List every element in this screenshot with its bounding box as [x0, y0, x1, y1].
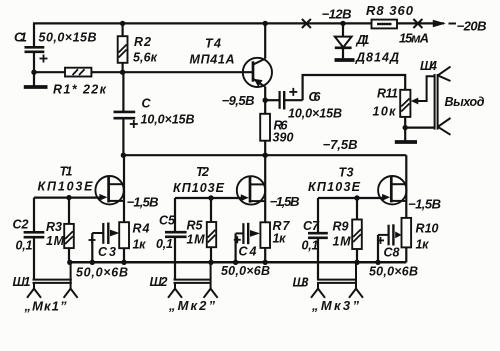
arrow -20V	[433, 20, 456, 28]
svg-text:R11: R11	[377, 87, 398, 101]
connector Sh3	[311, 262, 363, 298]
svg-text:Д1: Д1	[356, 33, 370, 47]
label R10	[416, 222, 439, 252]
ground at C1	[24, 85, 48, 89]
svg-text:С3: С3	[98, 245, 116, 259]
capacitor C1	[25, 23, 48, 85]
svg-text:R4: R4	[133, 222, 150, 236]
label -20V	[457, 19, 487, 34]
label R3	[46, 220, 65, 248]
label R7	[273, 219, 291, 246]
resistor R7	[260, 222, 270, 262]
svg-text:1М: 1М	[187, 233, 206, 247]
label C7	[302, 219, 321, 253]
svg-text:С6: С6	[309, 90, 322, 104]
label Sh3	[293, 276, 309, 290]
svg-text:Выход: Выход	[445, 95, 485, 109]
svg-text:С: С	[142, 97, 152, 111]
transistor T3	[378, 155, 406, 218]
svg-text:С2: С2	[13, 218, 29, 232]
capacitor C4	[234, 223, 260, 262]
wire T3 gate line	[318, 197, 386, 199]
label C value	[141, 113, 195, 127]
connector Sh4	[435, 67, 451, 135]
wire top supply rail	[33, 22, 444, 24]
svg-text:С5: С5	[159, 214, 176, 228]
label R1	[53, 83, 107, 97]
node T4 collector top	[263, 21, 268, 26]
svg-text:МП41А: МП41А	[190, 53, 235, 67]
label R8	[366, 3, 414, 18]
node R3 top	[66, 195, 71, 200]
wire ground bus	[69, 261, 406, 264]
label R9	[333, 220, 352, 249]
resistor R2	[118, 23, 128, 72]
node rail R6	[263, 153, 268, 158]
svg-text:−1,5В: −1,5В	[127, 195, 159, 210]
label T2	[173, 165, 225, 195]
ground at R11	[395, 140, 417, 144]
svg-text:Ш2: Ш2	[150, 275, 168, 289]
label C5	[156, 214, 176, 252]
svg-text:Т2: Т2	[196, 165, 209, 179]
resistor R3	[64, 198, 74, 263]
node bus C4	[233, 260, 238, 265]
label -1,5V T1	[127, 195, 159, 210]
svg-text:Ш3: Ш3	[293, 276, 309, 290]
label Sh1	[13, 275, 31, 289]
label R5	[187, 219, 206, 247]
connector Sh1	[27, 262, 78, 298]
diode D1	[335, 23, 352, 58]
label C1 value	[39, 31, 97, 45]
wire T1 gate line	[34, 197, 103, 199]
label C1	[14, 30, 27, 45]
node bus R3	[67, 260, 72, 265]
svg-text:15мА: 15мА	[399, 31, 429, 46]
node bus C3	[90, 260, 95, 265]
node base R2	[120, 70, 125, 75]
transistor T2	[237, 155, 265, 222]
wire C6 to R11	[303, 75, 406, 100]
node C1 R1 junction	[31, 70, 36, 75]
svg-text:5,6к: 5,6к	[133, 50, 158, 64]
svg-text:С7: С7	[303, 219, 320, 233]
resistor R6	[260, 100, 270, 155]
label 50,0x6V third	[369, 265, 418, 279]
svg-text:„Мк2”: „Мк2”	[168, 298, 216, 313]
transistor T1	[95, 155, 124, 222]
node R9 top	[354, 195, 359, 200]
svg-text:50,0×15В: 50,0×15В	[39, 31, 97, 45]
svg-text:R1* 22к: R1* 22к	[53, 83, 107, 97]
resistor R1	[65, 68, 91, 77]
label R2	[133, 35, 158, 65]
node bus R7	[263, 260, 268, 265]
label -1,5V T2	[270, 194, 300, 209]
svg-text:390: 390	[273, 131, 294, 145]
svg-text:Т1: Т1	[60, 165, 73, 179]
wire base line	[34, 71, 253, 73]
label T1	[38, 165, 94, 194]
label C6	[309, 90, 322, 104]
svg-text:КП103Е: КП103Е	[308, 180, 361, 194]
svg-text:0,1: 0,1	[302, 239, 319, 253]
label output	[445, 95, 485, 109]
label C3	[98, 245, 116, 259]
capacitor C2	[24, 198, 45, 280]
node rail C	[121, 153, 126, 158]
capacitor C	[114, 72, 138, 155]
capacitor C8	[377, 224, 402, 262]
svg-text:50,0×6В: 50,0×6В	[369, 265, 418, 279]
svg-text:Т3: Т3	[339, 166, 354, 180]
x mark right	[413, 19, 422, 28]
svg-text:−12В: −12В	[322, 7, 352, 22]
ground at D1	[335, 58, 355, 62]
svg-text:0,1: 0,1	[156, 237, 173, 251]
potentiometer R11	[400, 76, 434, 141]
label 15mA	[399, 31, 429, 46]
label 50,0x6V first	[76, 266, 128, 280]
label R4	[133, 222, 150, 252]
svg-text:„Мк1”: „Мк1”	[24, 299, 68, 314]
label C6 value	[288, 107, 342, 121]
svg-text:0,1: 0,1	[16, 239, 33, 253]
label Sh2	[150, 275, 168, 289]
node bus R5	[208, 260, 213, 265]
node bus R9	[354, 260, 359, 265]
svg-text:−20В: −20В	[457, 19, 487, 34]
svg-text:50,0×6В: 50,0×6В	[221, 264, 270, 278]
svg-text:Т4: Т4	[205, 37, 221, 51]
resistor R5	[207, 198, 216, 262]
label C	[142, 97, 152, 111]
svg-text:−1,5В: −1,5В	[270, 194, 300, 209]
svg-text:„Мк3”: „Мк3”	[311, 298, 360, 313]
resistor R8	[372, 20, 398, 29]
svg-text:С4: С4	[239, 245, 257, 259]
svg-text:Д814Д: Д814Д	[355, 51, 399, 65]
svg-text:1к: 1к	[416, 238, 430, 252]
svg-text:R3: R3	[46, 220, 62, 234]
node bus R4	[121, 260, 126, 265]
node R11 bottom	[403, 125, 408, 130]
svg-text:1М: 1М	[333, 235, 352, 249]
resistor R9	[352, 198, 362, 262]
label -7,5V	[323, 137, 358, 152]
svg-text:КП103Е: КП103Е	[38, 180, 94, 194]
wire R11 to jack	[405, 126, 434, 128]
connector Sh2	[168, 262, 218, 298]
svg-text:−7,5В: −7,5В	[323, 137, 358, 152]
x mark left	[302, 19, 311, 28]
label R11	[373, 87, 399, 119]
svg-text:С8: С8	[384, 246, 400, 260]
svg-text:R2: R2	[134, 35, 151, 49]
label Mk3	[311, 298, 360, 313]
label T4	[190, 37, 235, 67]
label T3	[308, 166, 361, 195]
wire T2 gate line	[175, 197, 245, 199]
label 50,0x6V second	[221, 264, 270, 278]
node R5 top	[208, 195, 213, 200]
svg-text:−1,5В: −1,5В	[408, 197, 441, 212]
label Sh4	[420, 59, 437, 73]
label D1	[355, 33, 399, 65]
svg-text:R9: R9	[333, 220, 349, 234]
svg-text:R5: R5	[187, 219, 204, 233]
capacitor C3	[89, 223, 120, 263]
transistor T4	[243, 23, 272, 100]
svg-text:Ш4: Ш4	[420, 59, 437, 73]
label -12V	[322, 7, 352, 22]
label C2	[13, 218, 33, 253]
svg-text:1к: 1к	[273, 232, 287, 246]
svg-text:1М: 1М	[46, 234, 65, 248]
node D1 top	[340, 21, 345, 26]
label C4	[239, 245, 257, 259]
svg-text:1к: 1к	[133, 238, 147, 252]
svg-text:КП103Е: КП103Е	[173, 181, 225, 195]
label Mk1	[24, 299, 68, 314]
wire -7,5V rail	[123, 154, 406, 156]
svg-text:Ш1: Ш1	[13, 275, 31, 289]
svg-text:R8 360: R8 360	[366, 3, 414, 18]
capacitor C6	[265, 88, 302, 110]
svg-text:10,0×15В: 10,0×15В	[288, 107, 342, 121]
svg-text:С1: С1	[14, 30, 27, 45]
resistor R10	[402, 218, 412, 262]
node T4 emitter	[263, 98, 268, 103]
label C8	[384, 246, 400, 260]
svg-text:50,0×6В: 50,0×6В	[76, 266, 128, 280]
svg-text:10,0×15В: 10,0×15В	[141, 113, 195, 127]
node bus C8	[375, 260, 380, 265]
node R2 top	[120, 21, 125, 26]
label -1,5V T3	[408, 197, 441, 212]
svg-text:R10: R10	[416, 222, 439, 236]
resistor R4	[119, 222, 129, 262]
svg-text:10к: 10к	[373, 105, 397, 119]
label Mk2	[168, 298, 216, 313]
capacitor C5	[165, 198, 187, 280]
capacitor C7	[308, 198, 328, 280]
label R6	[273, 119, 294, 145]
svg-text:−9,5В: −9,5В	[222, 93, 255, 108]
label -9,5V	[222, 93, 255, 108]
